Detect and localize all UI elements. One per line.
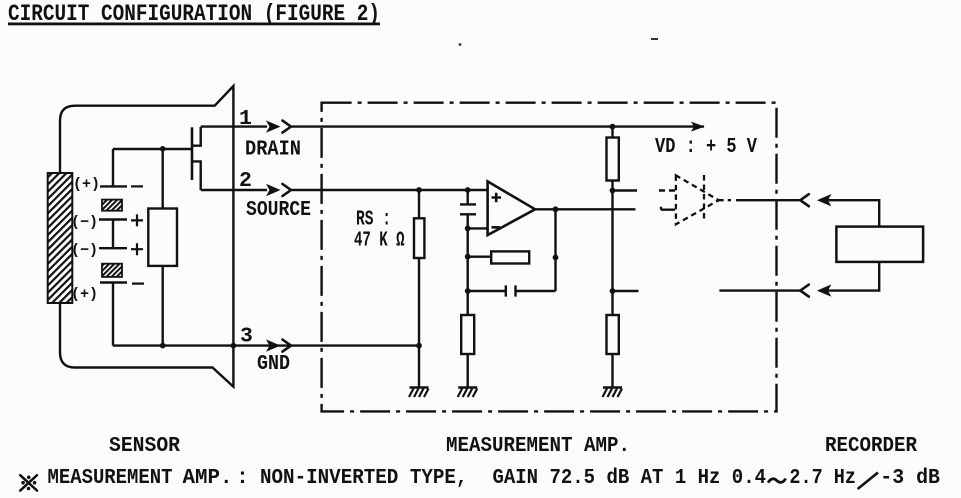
svg-text:AMP.: AMP. <box>183 466 233 490</box>
svg-text:-3 dB: -3 dB <box>880 466 940 490</box>
svg-text:1: 1 <box>239 107 252 131</box>
svg-text:2.7 Hz: 2.7 Hz <box>789 466 856 490</box>
svg-text:SENSOR: SENSOR <box>109 434 180 458</box>
svg-text:2: 2 <box>239 169 252 193</box>
svg-text:(+): (+) <box>73 176 100 193</box>
svg-text:RECORDER: RECORDER <box>825 434 917 458</box>
svg-text:MEASUREMENT AMP.: MEASUREMENT AMP. <box>446 434 630 458</box>
svg-text:47 K Ω: 47 K Ω <box>354 229 405 253</box>
svg-text:SOURCE: SOURCE <box>246 198 311 222</box>
svg-text:MEASUREMENT: MEASUREMENT <box>48 466 173 490</box>
svg-text:(+): (+) <box>71 286 98 303</box>
svg-text:3: 3 <box>240 325 253 349</box>
svg-text:(−): (−) <box>71 214 98 231</box>
svg-text::: : <box>236 466 249 490</box>
svg-text:DRAIN: DRAIN <box>245 138 301 162</box>
svg-text:VD : + 5 V: VD : + 5 V <box>655 135 757 159</box>
svg-text:GND: GND <box>257 352 290 376</box>
svg-text:GAIN 72.5 dB AT 1 Hz 0.4: GAIN 72.5 dB AT 1 Hz 0.4 <box>493 466 767 490</box>
svg-text:(−): (−) <box>71 242 98 259</box>
svg-text:NON-INVERTED TYPE,: NON-INVERTED TYPE, <box>260 466 468 490</box>
